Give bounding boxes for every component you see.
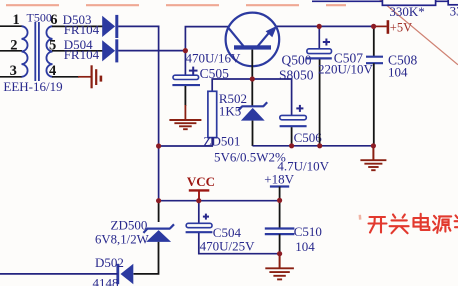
svg-text:T500: T500 [27, 11, 52, 25]
svg-text:D502: D502 [95, 255, 124, 270]
chassis ground at pin 4 [92, 65, 101, 88]
capacitor C504 470U/25V [186, 201, 256, 254]
svg-text:4148: 4148 [93, 276, 119, 286]
capacitor C508 104 [366, 26, 418, 146]
junction node +18V [277, 198, 282, 203]
svg-text:FR104: FR104 [64, 47, 100, 62]
svg-text:C506: C506 [294, 130, 323, 145]
svg-text:+18V: +18V [264, 172, 294, 187]
svg-text:1K5: 1K5 [219, 104, 241, 119]
primary winding [22, 26, 28, 77]
capacitor C510 104 [265, 201, 322, 254]
wire C505 to ground [184, 86, 186, 106]
svg-text:330K*: 330K* [389, 4, 424, 19]
wire node to +5V terminal [373, 25, 386, 27]
ground under C510 [265, 254, 294, 279]
junction node C508 top [371, 24, 376, 29]
junction node C507 top [317, 24, 322, 29]
svg-text:3: 3 [10, 63, 17, 79]
svg-text:1: 1 [13, 12, 20, 28]
junction node D504/C505 [183, 48, 188, 53]
wire R502 bottom to node [159, 138, 213, 146]
svg-text:EEH-16/19: EEH-16/19 [3, 79, 62, 94]
svg-text:+5V: +5V [390, 20, 412, 34]
wire pin2 [0, 50, 22, 52]
wire D503 output to corner [118, 25, 159, 27]
svg-text:VCC: VCC [187, 174, 215, 189]
stray mark [359, 215, 362, 220]
svg-text:Q500: Q500 [282, 52, 312, 67]
wire base stem [251, 50, 253, 79]
wire D504 output to node [118, 50, 186, 52]
terminal +18V [264, 172, 294, 201]
diagonal page boundary line [376, 0, 458, 65]
junction node VCC rail left [156, 198, 161, 203]
svg-text:470U/25V: 470U/25V [200, 239, 256, 254]
resistor 330K* (cut at top) [382, 0, 435, 19]
wire 330K lead [312, 0, 458, 2]
svg-text:104: 104 [295, 239, 315, 254]
svg-text:470U/16V: 470U/16V [186, 50, 242, 65]
junction node VCC stem [196, 198, 201, 203]
wire pin3 [0, 76, 22, 78]
wire base rail [212, 79, 291, 116]
junction node C507 bottom [317, 143, 322, 148]
wire VCC rail [159, 200, 280, 202]
zener ZD501 5V6 [204, 79, 287, 164]
svg-text:220U/10V: 220U/10V [318, 62, 374, 77]
terminal +5V [388, 20, 412, 34]
svg-text:S8050: S8050 [279, 68, 314, 83]
capacitor C505 470U/16V [172, 50, 241, 85]
wire vertical drop x=158.6 [158, 26, 160, 202]
wire C504 bottom rail [199, 233, 280, 254]
wire ZD500 anode to D502 [134, 242, 159, 274]
diode D502 4148 [93, 255, 134, 286]
ground under C505 [169, 120, 201, 129]
wire D502 cathode to left edge [0, 273, 118, 275]
transistor Q500 S8050 [226, 13, 314, 83]
core [34, 22, 36, 81]
wire pin5 to D504 [52, 50, 103, 52]
capacitor C506 4.7U/10V [277, 105, 329, 174]
svg-text:5V6/0.5W2%: 5V6/0.5W2% [214, 149, 286, 164]
svg-text:C510: C510 [294, 224, 322, 239]
ground under C507/C508 rail [360, 146, 386, 170]
junction node C508 bottom [371, 143, 376, 148]
wire emitter rail to +5V node [277, 25, 375, 27]
junction node base [250, 76, 255, 81]
svg-text:ZD501: ZD501 [204, 134, 241, 149]
transformer T500 [0, 11, 63, 95]
junction node C506 bottom [289, 143, 294, 148]
capacitor C507 220U/10V [306, 26, 373, 145]
wire corner to collector rail [185, 27, 228, 51]
wire pin1 [0, 25, 22, 27]
wire ZD501 anode [252, 121, 254, 146]
svg-text:FR104: FR104 [64, 22, 100, 37]
secondary winding [46, 26, 52, 77]
junction node rail1 left [156, 143, 161, 148]
wire pin4 [52, 76, 79, 78]
svg-text:33: 33 [450, 3, 458, 18]
svg-text:ZD500: ZD500 [111, 218, 148, 233]
svg-text:6V8,1/2W: 6V8,1/2W [95, 233, 150, 247]
resistor 330K (cut at right edge) [448, 0, 458, 18]
wire pin6 to D503 [52, 25, 103, 27]
junction node C510 bottom [277, 251, 282, 256]
svg-text:2: 2 [10, 38, 17, 54]
zener ZD500 6V8 [95, 201, 174, 247]
terminal VCC [187, 174, 215, 201]
label 开关电源部 (red chinese) [369, 214, 458, 233]
resistor R502 1K5 [208, 91, 247, 137]
diode D504 FR104 [64, 37, 117, 63]
svg-text:104: 104 [388, 64, 408, 79]
top dashed guide line [6, 4, 346, 6]
diode D503 FR104 [63, 12, 117, 38]
